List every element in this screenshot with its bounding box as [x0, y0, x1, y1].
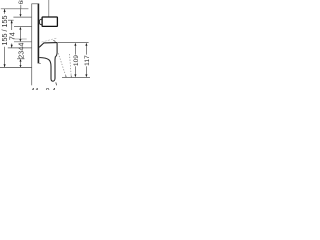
svg-text:4: 4	[52, 88, 56, 90]
svg-text:117: 117	[84, 55, 90, 66]
svg-text:44: 44	[31, 88, 39, 90]
svg-text:44: 44	[17, 43, 26, 51]
svg-text:68: 68	[18, 0, 25, 4]
svg-text:0: 0	[46, 88, 50, 90]
svg-text:23: 23	[17, 51, 26, 59]
svg-text:109: 109	[73, 55, 80, 66]
